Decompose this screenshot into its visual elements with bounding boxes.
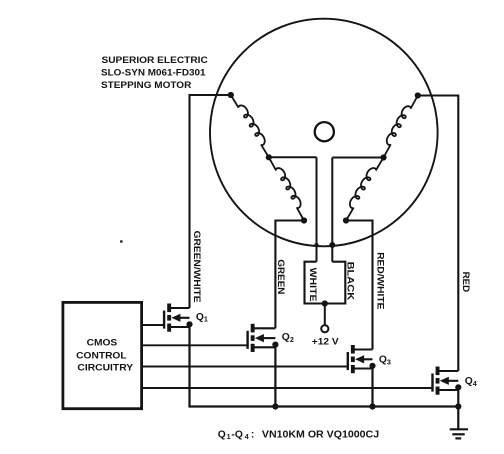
- node: L3 top terminal: [415, 92, 421, 98]
- svg-text:Q1-Q4:: Q1-Q4:: [218, 429, 255, 441]
- wire: green (L2 to Q2 drain): [275, 221, 304, 329]
- wire: Q2 source to rail: [274, 347, 276, 406]
- node: L1 top terminal: [228, 92, 234, 98]
- svg-text:Q2: Q2: [282, 332, 294, 344]
- transistor Q2: [142, 324, 279, 352]
- svg-text:CONTROL: CONTROL: [76, 350, 127, 360]
- svg-text:BLACK: BLACK: [346, 262, 356, 301]
- node: supply box bottom: [322, 300, 328, 306]
- transistor Q4: [142, 367, 462, 395]
- motor shaft: [315, 122, 334, 141]
- svg-text:SUPERIOR ELECTRIC: SUPERIOR ELECTRIC: [102, 55, 209, 65]
- transistor Q3: [142, 345, 376, 373]
- svg-text:+12 V: +12 V: [312, 336, 339, 346]
- node: Q3 source on rail: [369, 403, 375, 409]
- svg-text:CIRCUITRY: CIRCUITRY: [77, 363, 133, 373]
- ground: [450, 429, 468, 438]
- svg-text:Q4: Q4: [465, 376, 477, 388]
- svg-text:GREEN/WHITE: GREEN/WHITE: [192, 231, 202, 303]
- svg-text:Q3: Q3: [379, 355, 391, 367]
- node: left centre tap junction: [266, 154, 272, 160]
- node: rail to ground junction: [455, 403, 461, 409]
- wire: red/white (L4 to Q3 drain): [346, 221, 373, 350]
- svg-text:GREEN: GREEN: [276, 259, 286, 294]
- stepping motor outline: [210, 19, 438, 247]
- svg-text:RED: RED: [461, 272, 471, 293]
- svg-text:VN10KM OR VQ1000CJ: VN10KM OR VQ1000CJ: [262, 429, 379, 440]
- svg-text:Q1: Q1: [196, 312, 208, 324]
- wire: Q4 source to ground: [457, 390, 459, 429]
- speck: [120, 240, 123, 243]
- winding L2 (lower left): [269, 157, 304, 220]
- wire: left centre tap to white lead: [269, 156, 317, 158]
- CMOS control circuitry box: [63, 302, 142, 408]
- winding L1 (upper left): [231, 95, 269, 157]
- svg-text:SLO-SYN M061-FD301: SLO-SYN M061-FD301: [101, 67, 206, 77]
- svg-text:WHITE: WHITE: [308, 268, 318, 302]
- svg-text:RED/WHITE: RED/WHITE: [375, 252, 385, 309]
- svg-text:STEPPING MOTOR: STEPPING MOTOR: [101, 80, 192, 90]
- node: L4 bottom terminal: [343, 217, 349, 223]
- winding L4 (lower right): [346, 158, 384, 221]
- node: Q2 source on rail: [272, 403, 278, 409]
- supply connector box: [305, 262, 346, 304]
- wire: Q3 source to rail: [371, 369, 373, 407]
- wire: red (L3 to Q4 drain): [418, 96, 459, 372]
- terminal: +12V: [321, 325, 328, 332]
- wire: white lead (vertical): [316, 157, 318, 261]
- winding L3 (upper right): [384, 96, 418, 158]
- wire: right centre tap to black lead: [332, 157, 383, 159]
- wire: black lead (vertical): [331, 158, 333, 262]
- node: black lead at motor rim: [329, 242, 335, 248]
- node: white lead at motor rim: [314, 243, 318, 247]
- wire: green/white (L1 to Q1 drain): [190, 95, 231, 308]
- node: right centre tap junction: [380, 154, 386, 160]
- wire: supply lead: [324, 304, 326, 326]
- svg-text:CMOS: CMOS: [87, 337, 118, 347]
- node: L2 bottom terminal: [301, 217, 307, 223]
- wire: Q1 source to rail: [190, 327, 459, 407]
- transistor Q1: [142, 304, 193, 332]
